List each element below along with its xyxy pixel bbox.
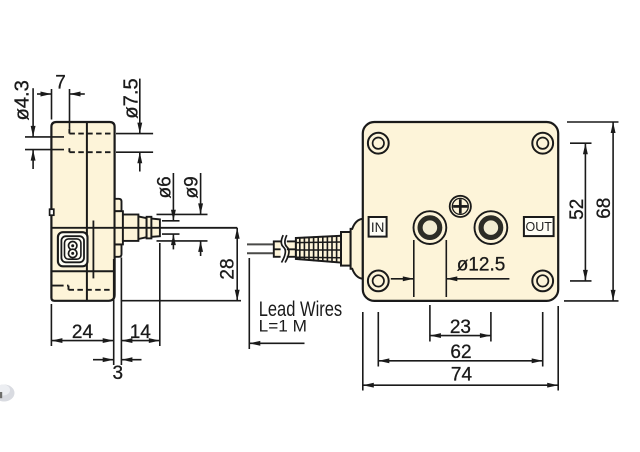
svg-text:24: 24 [72, 322, 94, 343]
dim 52 line and arrows [584, 143, 586, 281]
dim 7 extension lines [51, 89, 53, 120]
svg-text:ø12.5: ø12.5 [457, 255, 506, 276]
svg-text:ø7.5: ø7.5 [120, 78, 142, 118]
dim 62 line and arrows [378, 360, 542, 362]
svg-text:7: 7 [55, 73, 66, 94]
dim 74 line and arrows [363, 384, 558, 386]
left edge notch [50, 209, 54, 215]
cable rib 8 [331, 235, 333, 264]
corner hole bottom-right [532, 271, 553, 292]
gland collar [341, 232, 351, 266]
port IN dark ring [420, 218, 439, 237]
svg-text:23: 23 [450, 317, 471, 338]
connector outer shell [58, 232, 88, 266]
cable rib 5 [317, 235, 319, 264]
cable rib 3 [308, 235, 310, 264]
cable rib 6 [322, 235, 324, 264]
connector inner shell [65, 239, 81, 259]
lead wire lower [247, 252, 275, 254]
cable rib 9 [336, 235, 338, 264]
OUT label box [524, 217, 554, 236]
hose barb taper [138, 216, 146, 239]
svg-text:28: 28 [218, 258, 239, 279]
gland bell base [351, 219, 363, 279]
side body parting line [86, 123, 88, 300]
port OUT outer circle [475, 211, 508, 244]
svg-text:14: 14 [130, 322, 152, 343]
port IN outer circle [414, 211, 447, 244]
dim 3 lines and arrows [93, 359, 114, 361]
lead wire upper [247, 243, 275, 245]
dim o7.5 line and arrows [139, 79, 141, 134]
hose barb cylinder (o9) [123, 215, 138, 241]
corner hole top-left [368, 133, 389, 154]
dim 23/62/74 extension lines [429, 305, 431, 342]
cable break gap [281, 234, 287, 264]
hose fitting collar [115, 211, 123, 244]
hose fitting top tab [115, 199, 122, 211]
cable sheath [274, 241, 296, 256]
svg-text:52: 52 [567, 199, 588, 220]
dim 28 line and arrows [236, 228, 238, 301]
dim o12.5 line and arrows [391, 278, 414, 280]
dim 28 bottom reference line [121, 300, 241, 302]
connector pin circle top [69, 242, 77, 250]
dim o9 line and arrows [200, 173, 202, 214]
IN label box [369, 217, 387, 237]
dim 23 line and arrows [430, 335, 491, 337]
side body lower seam [52, 270, 115, 272]
hose fitting bottom tab [115, 244, 122, 256]
side body rib edge [92, 221, 94, 279]
connector middle shell [61, 236, 84, 262]
cable rib 4 [313, 235, 315, 264]
dim o6 line and arrows [172, 173, 174, 221]
lead wires length extension line [248, 258, 250, 349]
dim 14 line and arrows [121, 340, 159, 342]
hose tip tube [151, 219, 160, 237]
screw head [450, 196, 471, 217]
cable rib 1 [299, 235, 301, 264]
corner hole top-right [532, 133, 553, 154]
connector pin circle bottom [69, 249, 77, 257]
side view body [51, 122, 114, 301]
centerline through fitting to 28 dim [52, 227, 238, 229]
lead wires arrow [249, 342, 304, 344]
dim 52 extension lines [570, 142, 592, 144]
svg-text:3: 3 [113, 363, 124, 384]
cable rib 2 [303, 235, 305, 264]
front view body [363, 122, 558, 301]
dim o4.3 line and arrows [32, 88, 34, 137]
corner hole bottom-left [368, 271, 389, 292]
cable break symbol [281, 235, 285, 262]
svg-text:68: 68 [594, 198, 615, 219]
dim o12.5 extension lines [413, 240, 415, 297]
dim o6 extension lines [162, 220, 180, 222]
cable rib 7 [326, 235, 328, 264]
dim o7.5 extension lines [116, 133, 153, 135]
dim 24/3/14 extension lines below side view [50, 304, 52, 346]
svg-text:ø9: ø9 [182, 176, 203, 198]
hidden hole dashed outline (side view) [68, 129, 70, 134]
svg-text:IN: IN [371, 220, 385, 235]
dim 24 line and arrows [51, 340, 113, 342]
svg-text:ø6: ø6 [154, 176, 175, 198]
dim o9 extension lines [157, 213, 208, 215]
photo fragment bottom left [0, 385, 15, 402]
dim 68 extension lines [567, 121, 619, 123]
svg-text:ø4.3: ø4.3 [11, 80, 33, 120]
dim 68 line and arrows [612, 122, 614, 301]
svg-text:L=1 M: L=1 M [259, 317, 307, 335]
cable rib inner lines [296, 241, 341, 244]
svg-text:OUT: OUT [526, 220, 553, 234]
dim o4.3 extension lines [25, 136, 64, 138]
svg-text:74: 74 [451, 364, 473, 385]
cable sheath middle seam [274, 248, 296, 250]
hose barb ring [147, 217, 152, 239]
hidden lines bottom (side view) [52, 285, 69, 287]
port OUT dark ring [481, 218, 500, 237]
dim 7 line and arrows [37, 93, 52, 95]
svg-text:62: 62 [450, 342, 471, 363]
